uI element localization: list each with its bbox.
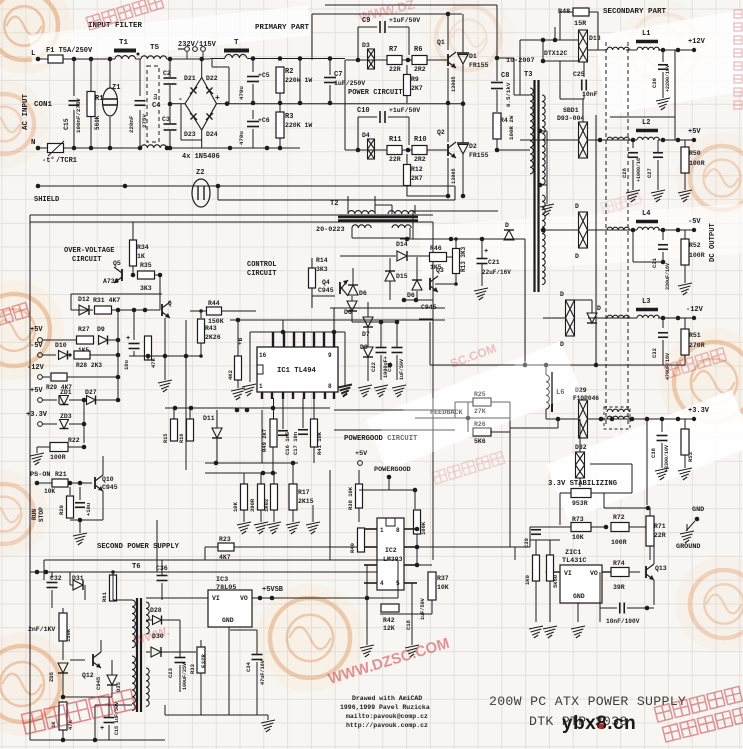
junction 543 61 [541,59,546,64]
svg-text:SECOND POWER SUPPLY: SECOND POWER SUPPLY [97,543,180,551]
wire row630 [230,629,257,631]
svg-text:4K7: 4K7 [219,554,231,561]
svg-text:N: N [31,139,36,147]
wire c38 down [661,419,663,432]
label SBD1 [563,107,579,114]
junction row473 b [271,471,276,476]
ground R24x [237,522,251,534]
label R42 [383,617,395,624]
svg-text:100uF/25V: 100uF/25V [182,663,188,690]
switch contact a [185,47,190,52]
label 3K3 [316,266,328,273]
wire r24 top [243,473,245,484]
node N [36,146,41,151]
resistor R74 [611,568,629,577]
pin ic2 1 [380,527,384,534]
wire r19 gnd [273,510,275,522]
wire 560 down3 [559,493,561,525]
svg-text:Drawed with AmiCAD: Drawed with AmiCAD [352,695,422,702]
label R11 value [389,156,401,163]
label D22 [206,75,218,82]
svg-text:100nF/275V: 100nF/275V [75,98,82,133]
ground IC1 pin [242,384,256,396]
terminal +5V pg [358,461,363,466]
wire r50 up [684,140,686,147]
wire q6 down [164,318,166,356]
ground TL431 [571,626,585,638]
svg-text:+2200/16V: +2200/16V [665,65,671,92]
terminal -12V [38,375,43,380]
diode D29 [579,400,588,438]
switch contact c [201,47,206,52]
wire +3v3 [42,423,57,425]
junction row473 a [261,471,266,476]
ground R52 [678,283,692,295]
label GROUND [676,543,700,551]
svg-text:GROUND: GROUND [676,543,700,551]
resistor R23 [218,543,234,551]
wire c25 left [560,98,584,100]
wire r46 right [446,256,454,258]
svg-text:R20: R20 [58,505,65,515]
svg-text:Q3: Q3 [436,267,444,274]
label 270R [689,342,705,349]
label FR155 2 [469,152,489,159]
junction zd3 [82,422,87,427]
wire sps top [44,559,398,561]
junction bridge bottom [165,146,170,151]
label PS-ON [30,471,50,479]
diode D-12b [587,313,597,323]
wire boundary1 [218,199,455,201]
label R7 [389,46,397,54]
diode D3 [368,49,375,69]
wire r24 gnd [243,510,245,522]
svg-text:R34: R34 [137,244,149,251]
diode D10 [59,351,68,360]
label R76 [552,575,559,588]
junction mid R2 [278,101,283,106]
svg-text:2R2: 2R2 [414,66,426,73]
core T3 a [533,80,535,292]
junction c10 left [356,148,361,153]
junction 543 230 [541,228,546,233]
svg-text:2K7: 2K7 [411,175,423,182]
wire 412 down [411,583,413,614]
label L3 [642,298,650,306]
wire row740 [30,739,165,741]
credit line1 [352,695,422,702]
svg-text:T: T [234,39,239,47]
label VI ic3 [212,595,220,602]
capacitor C34 [252,655,263,660]
wire zd1 d27 [69,399,85,401]
ground Q10 [73,533,87,545]
label 100R [50,454,66,461]
winding out +5V [607,137,629,140]
wire 5vsb ext [285,597,398,599]
svg-text:R21: R21 [55,471,67,478]
zener ZD3 [60,420,69,429]
resistor R13 [453,249,460,274]
label R2 [285,68,293,76]
svg-text:D6: D6 [344,309,352,316]
ground r42 [405,645,419,657]
label C10 [357,107,370,115]
svg-text:C27: C27 [646,168,653,178]
svg-text:13005: 13005 [451,76,457,92]
wire C7 down [329,85,331,103]
svg-text:F1 T5A/250V: F1 T5A/250V [46,47,93,55]
wire C2 down [169,85,171,104]
wire under ic bus [165,407,330,409]
resistor R38 [356,484,363,508]
junction row322 a [379,320,384,325]
wire y117 left [610,116,675,118]
svg-text:C7: C7 [334,71,342,79]
label R48 [558,8,570,16]
label 2K26 [205,334,221,341]
svg-text:T3: T3 [524,71,532,79]
label C26 val [636,158,642,182]
label bridge minus [178,95,183,104]
svg-text:R74: R74 [613,560,625,567]
diode SBD1 [579,122,588,158]
label -5V out [688,218,701,226]
svg-text:3K3: 3K3 [140,285,152,292]
label 100R r50 [689,160,705,167]
wire 273 between [272,447,274,473]
svg-text:D10: D10 [55,342,67,349]
wire c32 down [662,318,664,328]
wire r71 top [649,508,651,516]
diode D11 [212,428,222,438]
svg-text:+: + [484,248,488,256]
label 953R [572,500,588,507]
label GND [692,506,704,514]
svg-text:-12V: -12V [686,306,704,314]
wire d7 d8 [367,327,369,347]
regulator IC3 78L05 box [208,590,252,627]
label +5V out [688,128,701,136]
svg-text:1uF/50V: 1uF/50V [399,359,405,380]
label R2 value [285,77,312,84]
wire mid rail [227,103,462,105]
label L1 [642,30,650,38]
wire c25 up [583,62,585,77]
svg-text:D9: D9 [97,326,105,333]
winding out +3.3V b [607,409,629,412]
wire zd3 down [83,424,85,443]
svg-text:275V: 275V [141,114,148,128]
label 78L05 [216,584,236,592]
wire 165 seg [164,705,166,715]
wire shield [38,185,455,187]
wire 345 stub [344,370,346,385]
resistor R14 [309,268,316,288]
wire bridge top stub [201,59,203,78]
pin stub bottom 7 [324,392,326,399]
junction Z1 top [108,57,113,62]
svg-text:+: + [126,335,130,343]
label C10 value [389,107,420,114]
resistor R26 [473,428,491,436]
resistor R52 [681,239,689,265]
svg-text:/TCR1: /TCR1 [56,157,77,165]
svg-text:D24: D24 [206,131,218,138]
svg-text:1K: 1K [137,253,145,260]
junction 5vsb a [258,596,263,601]
wire left ic1 gnd [249,332,251,382]
wire R34 down [132,266,134,275]
terminal +12V dot [692,48,696,52]
svg-text:2K15: 2K15 [298,498,314,505]
label C9 value [389,17,420,24]
svg-text:-5V: -5V [688,218,701,226]
wire d6a up [352,268,354,285]
label Z1 [112,84,120,92]
resistor R45 [235,356,242,380]
resistor R12 [404,165,411,186]
diode D9 [99,336,108,345]
label C13 value [123,360,130,370]
ground R17 [286,522,300,534]
pin stub bottom 4 [292,392,294,399]
svg-text:L2: L2 [642,119,650,127]
resistor R10 [412,146,427,155]
label 15R [574,20,587,28]
label C26 [621,168,628,178]
svg-text:+: + [215,94,220,103]
wire r75 gnd [535,581,537,622]
core T6 b [140,598,142,712]
wire r44 right [221,310,256,312]
resistor R25 [473,398,491,406]
wire row463 [205,462,298,464]
winding T3 sec lower [542,195,545,285]
label D-5 bot [575,253,579,260]
wire row697 [63,696,112,698]
svg-text:D1: D1 [469,53,477,60]
resistor R48 [573,8,589,16]
wire C4 up [139,59,141,96]
wire row540 [530,539,560,541]
wire d5 stub [351,296,353,301]
terminal -5V dot [692,228,696,232]
wire c31 seg [662,252,664,262]
wire y211 drop [412,211,414,222]
wire l6 top [545,365,547,375]
junction R3 bottom [278,146,283,151]
label C34 val [260,659,266,685]
svg-text:C945: C945 [421,304,437,311]
resistor R50 [681,147,689,173]
wire 648 top [604,507,648,509]
wire pg down [388,477,390,490]
junction shield z2 [123,184,128,189]
svg-text:IC1 TL494: IC1 TL494 [277,367,317,375]
label 12K [383,625,395,632]
svg-text:R52: R52 [689,242,701,249]
wire T2 p2 r [414,205,416,214]
junction 367 598 [365,596,370,601]
capacitor C9 [380,21,385,33]
core T1 [114,49,136,53]
bridge diamond [185,78,217,131]
wire ov left [70,294,72,310]
wire T3 prim top [514,94,530,96]
node GND [695,517,700,522]
svg-text:R42: R42 [383,617,395,624]
wire zd3 up [83,400,85,424]
diode D21 mark [190,87,197,94]
wire Q2 down [447,103,449,142]
label 100R r72 [611,539,627,546]
label C38 [650,447,657,458]
wire r37 down [431,600,433,614]
svg-text:D6: D6 [359,290,367,297]
label R9 [411,76,419,83]
capacitor C40 [620,603,625,614]
wire ps-on [37,482,52,484]
label C7 [334,71,342,79]
label C945 q10 [102,484,118,491]
resistor R11 [387,146,402,155]
svg-text:270R: 270R [689,342,705,349]
svg-text:E32R: E32R [200,654,207,668]
svg-text:D28: D28 [150,607,162,614]
wire r52 up [684,230,686,239]
junction caps top [251,56,256,61]
junction bridge top [199,57,204,62]
svg-text:C945: C945 [95,676,102,690]
wire gnd stem [686,524,688,531]
resistor R7 [387,56,402,65]
label D6 b [344,309,352,316]
wire c36 up [161,560,163,575]
svg-text:R12: R12 [411,166,423,173]
wire l4 left [588,229,637,231]
wire r23 left [205,546,218,548]
svg-text:R43: R43 [205,325,217,332]
svg-text:mailto:pavouk@comp.cz: mailto:pavouk@comp.cz [346,713,428,720]
svg-text:Q2: Q2 [437,129,445,136]
svg-text:R11: R11 [389,136,402,144]
label C22 val [383,356,389,378]
svg-text:Q13: Q13 [655,565,667,572]
svg-text:2nF/1KV: 2nF/1KV [28,626,55,633]
wire R1 down [90,117,92,148]
wire d28 l [146,619,152,621]
label 13-2007 [506,57,535,65]
core T3 b [537,80,539,292]
wire D1 down [462,64,464,104]
junction R1 top [89,57,94,62]
pin ic2 l2 [364,546,377,548]
resistor R49 [270,419,277,447]
wire T2 s2 r [409,228,411,238]
label +C5 [258,72,270,79]
wire d9 right [108,339,118,341]
svg-text:100R: 100R [689,160,705,167]
svg-text:Q10: Q10 [102,476,114,483]
wire row262 [633,261,663,263]
junction 84 400 [82,398,87,403]
winding T6 s1 [146,602,149,634]
capacitor C5 [247,77,259,82]
wire bridge left link [170,103,185,105]
label D13 [589,35,601,42]
label R53 [687,451,694,462]
credit line2 [340,704,430,711]
wire 548 down [547,572,549,580]
junction C4 bottom [138,146,143,151]
pin stub bottom 5 [303,392,305,399]
junction 416 300 [414,298,419,303]
wire c27 gnd [657,160,659,190]
label 10nF [582,91,598,98]
svg-text:CON1: CON1 [34,101,53,109]
svg-text:100R 2W: 100R 2W [508,115,515,140]
label R3 value [285,122,312,129]
svg-text:Q1: Q1 [437,39,445,46]
wire c15 up [108,697,110,717]
capacitor C15 [69,101,80,106]
wire d32 down [579,478,581,487]
svg-text:D11: D11 [203,415,215,422]
wire x186 down [185,356,187,470]
wire q3 coll [435,283,456,285]
zener ZD5 [58,663,68,673]
junction l4 a [661,228,666,233]
svg-text:T1: T1 [119,39,129,47]
svg-text:R71: R71 [654,523,666,530]
svg-text:3.3V STABILIZING: 3.3V STABILIZING [548,480,617,488]
wire gnd q10 [79,520,81,533]
inductor L2 [637,137,659,140]
wire C6 down [252,129,254,148]
capacitor C10 [380,111,385,123]
junction R34 q5 [131,273,136,278]
resistor R15 [171,419,178,441]
label C17 [292,432,299,455]
wire r41 down [313,447,315,463]
resistor R44 [207,307,222,315]
wire d8 down [367,357,369,381]
capacitor C3 [164,124,177,130]
wire r13 top [455,239,457,249]
junction 663 262 [661,260,666,265]
label Q1 [437,39,445,46]
wire r48 left drop [559,12,561,40]
label C2 [163,70,171,77]
svg-text:OVER-VOLTAGE: OVER-VOLTAGE [64,247,114,255]
junction l1 b [676,48,681,53]
label VO tl431 [590,570,598,577]
wire R3 top [279,103,281,112]
ground C30 [656,98,670,110]
wire 632 seg [631,464,633,493]
label R74 [613,560,625,567]
wire t6 bot [95,704,132,706]
svg-text:C4: C4 [152,102,160,110]
wire fuse to T1 [63,58,115,60]
wire N to TCR1 [38,147,48,149]
wire row365 [430,364,596,366]
wire T2 p2 l [391,205,393,214]
label D7 r [362,331,370,338]
svg-text:R72: R72 [613,514,625,521]
